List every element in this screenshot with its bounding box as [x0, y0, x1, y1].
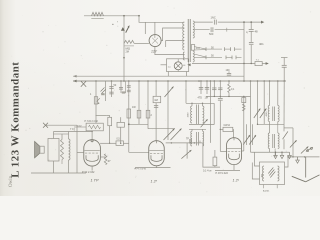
gang B arrows — [254, 109, 260, 119]
resistor R2 MΩ sawtooth — [124, 40, 134, 43]
wire choke box to tube A top — [91, 130, 93, 133]
resistor box on x128.8 — [127, 109, 131, 118]
wire tube U1 right grid box — [161, 28, 184, 41]
variable arrow right2 — [301, 147, 308, 154]
wire vertical x105.6 with hash marks — [105, 81, 107, 101]
capacitor C-top on y22 — [213, 20, 218, 24]
svg-text:401: 401 — [259, 42, 264, 46]
switch X symbol below bus — [83, 80, 85, 82]
wire y115.4 — [96, 114, 107, 116]
svg-text:P·97/1·022: P·97/1·022 — [216, 172, 229, 175]
resistor right of tube A — [100, 156, 106, 158]
resistor box CW12 — [223, 127, 233, 131]
resistor R1 top sawtooth — [92, 12, 104, 16]
wire label 1002 into choke box — [74, 126, 86, 128]
wire corner x139 to transformer top — [139, 16, 184, 22]
wire tube A top-right with box resistor — [100, 142, 116, 144]
band filter bottom stubs — [263, 185, 265, 189]
rail y63.5 from lamp to box resistor — [192, 63, 255, 65]
svg-text:1 TP: 1 TP — [91, 179, 99, 183]
main bus upper rail — [73, 75, 244, 77]
switch arrow under IFT2 — [201, 119, 208, 127]
capacitor on x220.3 — [219, 81, 221, 96]
switch contact row B — [205, 55, 207, 59]
capacitor pair above tube B wire — [189, 139, 191, 143]
wire x284 switch down — [283, 81, 285, 131]
tube B top wire y142.9 — [166, 142, 203, 144]
capacitor on x121 — [120, 81, 122, 93]
wire tube A top — [91, 132, 93, 140]
resistor box on x96 — [94, 97, 97, 104]
junction dots right rails — [275, 152, 276, 153]
X switch on wire y125.2 — [43, 123, 48, 128]
capacitor on x201 — [200, 81, 202, 94]
svg-text:1NC: 1NC — [211, 16, 216, 20]
wire vertical x128.8 bus to tube A wire — [128, 81, 130, 152]
variable capacitor arrows gang lower — [164, 129, 175, 141]
wire vertical x277.8 — [277, 81, 279, 106]
gang arrows above tube C — [246, 124, 248, 145]
mains plug symbol — [306, 147, 313, 151]
wire vertical x77 — [76, 125, 78, 173]
wire vertical x269.5 — [269, 81, 271, 106]
variable arrow at tube B — [186, 143, 188, 159]
wire IFT3 bottom to rail — [269, 149, 271, 153]
speaker wires top — [53, 132, 55, 139]
wire rail1 to x250.5 — [251, 151, 253, 153]
IFT2 top wire — [186, 102, 214, 104]
capacitor pair on x111 — [111, 81, 113, 97]
IFT2 upper left winding — [191, 103, 193, 106]
wire vertical x186 bus to IFT2 — [185, 81, 187, 103]
bus left end arrow — [73, 80, 77, 83]
wire y128.7 mid — [148, 128, 175, 130]
main bus lower rail — [73, 80, 286, 82]
wire tube B bottom — [135, 167, 171, 169]
IFT3 connecting wires — [269, 122, 271, 134]
transformer T1 lower-left winding — [183, 52, 184, 60]
variable arrow right1 — [290, 140, 297, 147]
wire into tube A grid — [77, 152, 84, 154]
wire y124.3 mid — [129, 123, 148, 125]
band filter right winding — [278, 166, 280, 181]
variable capacitor arrow A1 — [165, 87, 174, 98]
svg-text:CW12: CW12 — [224, 125, 231, 127]
IFT2 lower wire — [189, 128, 206, 130]
capacitor marks on x128.8 — [127, 85, 131, 87]
terminal plugs — [275, 152, 277, 155]
svg-text:100: 100 — [226, 69, 231, 72]
wire x293 down — [292, 128, 294, 157]
small box on x243.8 — [242, 98, 246, 103]
resistor box x215 — [213, 157, 217, 166]
wire vertical x264.2 — [263, 81, 265, 124]
band switch fan taps — [194, 47, 206, 50]
resistor box on x109.6 — [107, 114, 110, 116]
wire vertical x124 from top to bus — [123, 16, 125, 81]
transformer T1 right winding upper — [193, 21, 194, 38]
speaker cone — [35, 141, 40, 157]
output transformer winding — [69, 139, 71, 160]
svg-text:0,1·4·œ: 0,1·4·œ — [203, 170, 212, 173]
output transformer box — [48, 139, 59, 162]
svg-text:7 Cʒ: 7 Cʒ — [70, 128, 76, 131]
resistor on x229 — [228, 81, 230, 84]
wire vertical x214.2 — [213, 103, 215, 124]
tube U1 circle — [149, 35, 161, 47]
wire vertical x257.5 — [257, 81, 259, 124]
antenna V symbol — [305, 157, 307, 178]
wire vertical x148 — [147, 81, 149, 129]
IFT2 mid wire — [189, 124, 214, 126]
transformer T1 right winding lower — [193, 51, 194, 62]
svg-text:TP: TP — [186, 139, 189, 141]
terminal bar above x284 cap — [281, 57, 288, 59]
band filter left winding — [263, 166, 265, 181]
wire vertical x96 — [95, 81, 97, 123]
rail y152.2 — [252, 151, 290, 153]
scan speckle noise — [104, 31, 105, 32]
wire grid box lower — [166, 39, 185, 41]
IFT3 upper windings — [268, 106, 269, 122]
svg-text:A1201: A1201 — [263, 190, 270, 193]
wire x251 continues — [250, 31, 252, 42]
second capacitor on x251 — [249, 42, 254, 44]
IFT2 upper right winding — [202, 103, 204, 106]
capacitor on x251 — [249, 28, 254, 30]
wire y124.3 right — [258, 123, 285, 125]
tube B envelope — [149, 141, 165, 166]
wire y22 to right with arrow — [194, 21, 261, 23]
svg-text:P·Y22 2·C32: P·Y22 2·C32 — [85, 121, 99, 123]
svg-text:48: 48 — [255, 30, 259, 34]
band filter left loop wires — [255, 152, 260, 166]
wire x284 cap to bus — [283, 58, 285, 66]
wire right of tube C — [243, 96, 245, 151]
node junction at x124 top — [123, 15, 125, 17]
resistor box on x139 — [137, 110, 141, 118]
capacitor on x214.3 — [213, 81, 215, 96]
tube C envelope — [227, 138, 242, 165]
svg-text:500: 500 — [209, 32, 214, 36]
wire vertical x251 branch — [250, 22, 252, 29]
svg-text:2M: 2M — [126, 51, 129, 54]
choke box above tube A — [86, 123, 103, 131]
svg-text:4TD: 4TD — [198, 96, 203, 99]
field coil resistor — [61, 140, 64, 160]
capacitor x220 below rail — [219, 96, 221, 98]
trimmer capacitor on x124 — [121, 27, 125, 31]
wire tube U1 top lead — [154, 22, 156, 34]
wire vertical x250.5 — [250, 81, 252, 152]
wire y127.9 right — [284, 127, 293, 129]
band filter right connector — [285, 157, 289, 167]
tube A envelope — [84, 140, 101, 166]
resistor R1 underline — [91, 17, 103, 19]
resistor box on x148 — [146, 110, 150, 118]
wire lamp frame to bus — [185, 72, 187, 77]
wire top horizontal — [84, 15, 139, 17]
IFT3 core — [272, 107, 274, 122]
IFT3 lower windings — [268, 133, 269, 149]
wire vertical x139 — [138, 81, 140, 124]
wire CW12 to tube C top — [220, 128, 223, 130]
resistor R3 box — [191, 45, 194, 51]
wire tube U1 bottom — [155, 47, 185, 55]
lamp frame right arrow — [187, 63, 190, 66]
node junction at x139 top — [138, 15, 140, 17]
bridge capacitor at x229 on upper rail — [227, 73, 231, 75]
resistor 1M box — [153, 96, 161, 102]
IFT2 lower windings — [191, 131, 192, 146]
capacitor marks on x156 — [154, 105, 158, 107]
dial lamp frame — [167, 59, 189, 72]
IFT2 lower core — [195, 132, 197, 146]
tick x226.8 — [226, 28, 228, 32]
bottom rail left — [31, 172, 86, 174]
wire x156 box to tube B — [155, 81, 157, 96]
wire tube A bottom — [91, 166, 93, 170]
svg-text:L 123 W Kommandant: L 123 W Kommandant — [10, 62, 22, 178]
hash marks on x96 — [97, 98, 100, 101]
rail y156.9 — [287, 156, 320, 158]
wire vertical x145 drop — [144, 22, 146, 34]
dial lamp — [174, 62, 182, 70]
wire tube C bottom — [233, 165, 235, 171]
IFT2 core — [195, 105, 197, 125]
capacitor C2 on y29.7 — [210, 28, 215, 32]
speaker magnet box — [40, 146, 44, 153]
capacitor on x284 — [282, 64, 287, 66]
wire y29.7 — [194, 29, 244, 31]
svg-text:1 2ⁿ: 1 2ⁿ — [151, 179, 158, 183]
capacitor on x207 — [206, 81, 208, 94]
speaker wires bottom — [53, 161, 55, 173]
resistor box R4 — [255, 62, 262, 66]
wire into tube C grid — [220, 150, 226, 152]
resistor on x243.8 — [243, 104, 246, 111]
junction dot x124 y57.7 — [123, 57, 125, 59]
wire speaker top y131.5 — [54, 131, 93, 133]
svg-text:1000: 1000 — [187, 112, 189, 118]
transformer T1 left winding — [183, 22, 185, 50]
svg-text:47: 47 — [108, 159, 112, 163]
wire vertical x244 to bus — [243, 22, 245, 81]
wire lamp left stub — [161, 64, 167, 66]
wire vertical x210.4 — [209, 81, 211, 143]
switch contact row A — [205, 47, 207, 51]
band filter core hatch — [268, 168, 273, 174]
small box x120.7 — [120, 117, 122, 122]
wire vertical x168 bus down — [167, 81, 169, 140]
svg-text:1 2ᶜ: 1 2ᶜ — [233, 178, 240, 182]
wire into tube B grid — [129, 151, 149, 153]
transformer T1 core — [187, 19, 189, 62]
tick marks on y142.9 — [199, 141, 201, 143]
IFT3 lower core — [272, 134, 274, 148]
wire y125.2 — [46, 124, 78, 126]
svg-text:12Y: 12Y — [151, 50, 158, 54]
wire x202.9 down — [203, 143, 220, 167]
sub rail y96.4 — [206, 95, 251, 97]
svg-text:1M: 1M — [154, 98, 158, 102]
band filter box — [260, 162, 285, 185]
